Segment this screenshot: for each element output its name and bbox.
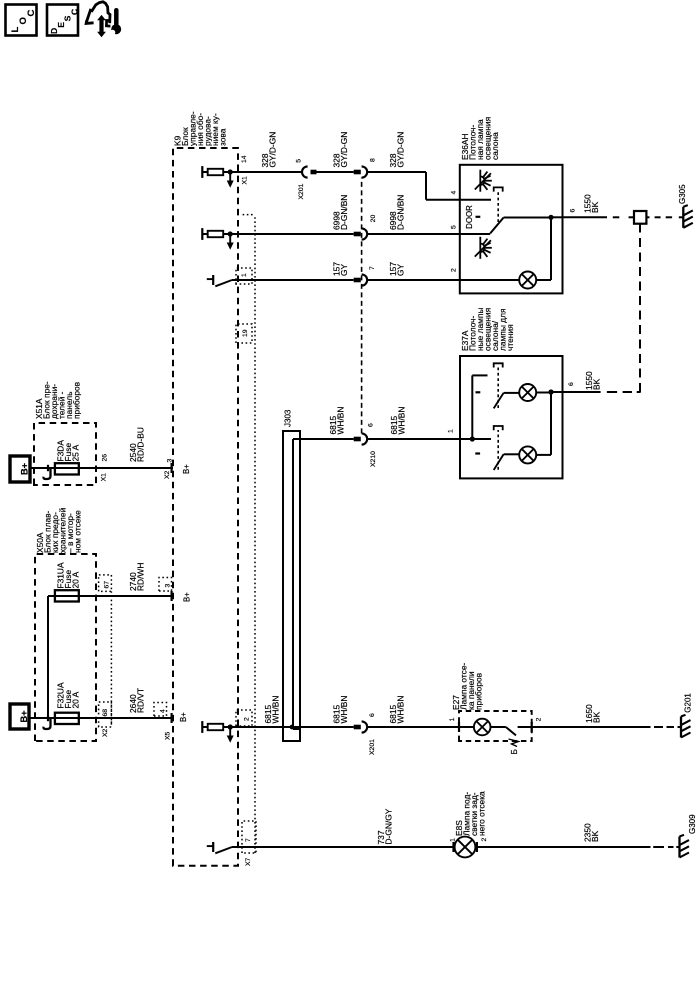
svg-text:1: 1	[448, 429, 455, 433]
svg-text:20 A: 20 A	[71, 571, 81, 588]
svg-text:1: 1	[449, 717, 456, 721]
svg-text:G201: G201	[684, 693, 693, 713]
svg-text:приборов: приборов	[72, 381, 82, 419]
svg-text:C: C	[69, 9, 79, 15]
svg-text:D-GN/GY: D-GN/GY	[384, 808, 394, 844]
svg-text:B+: B+	[19, 463, 29, 475]
svg-text:RD/WH: RD/WH	[136, 563, 146, 591]
svg-text:WH/BN: WH/BN	[336, 407, 346, 435]
svg-text:E: E	[56, 22, 66, 28]
svg-text:19: 19	[242, 329, 249, 337]
svg-text:L: L	[10, 27, 21, 33]
svg-text:1: 1	[450, 838, 457, 842]
svg-text:67: 67	[104, 581, 111, 589]
svg-text:G309: G309	[688, 814, 697, 834]
svg-text:S: S	[63, 15, 73, 21]
svg-text:O: O	[18, 17, 29, 25]
svg-text:G305: G305	[678, 184, 687, 204]
svg-text:GY: GY	[396, 263, 406, 276]
svg-text:C: C	[26, 10, 37, 17]
svg-text:DOOR: DOOR	[465, 205, 474, 229]
svg-text:RD/D-BU: RD/D-BU	[136, 427, 146, 462]
svg-text:3: 3	[167, 459, 174, 463]
svg-text:J303: J303	[284, 409, 293, 427]
svg-text:6: 6	[570, 209, 577, 213]
svg-text:14: 14	[241, 155, 248, 163]
svg-text:6: 6	[369, 713, 376, 717]
svg-text:X210: X210	[370, 451, 377, 467]
svg-text:25 A: 25 A	[71, 444, 81, 461]
svg-text:4: 4	[451, 191, 458, 195]
svg-text:20: 20	[370, 215, 377, 223]
svg-text:ном отсеке: ном отсеке	[73, 510, 83, 553]
svg-text:B+: B+	[179, 712, 188, 722]
svg-text:20 A: 20 A	[71, 691, 81, 708]
svg-text:B+: B+	[183, 592, 192, 602]
svg-text:8: 8	[370, 158, 377, 162]
svg-text:WH/BN: WH/BN	[396, 696, 406, 724]
svg-text:X1: X1	[101, 473, 108, 482]
svg-text:5: 5	[451, 225, 458, 229]
svg-text:X2: X2	[102, 728, 109, 737]
svg-text:WH/BN: WH/BN	[397, 407, 407, 435]
svg-text:2: 2	[451, 268, 458, 272]
svg-text:X1: X1	[242, 176, 249, 185]
svg-text:салона: салона	[490, 132, 500, 160]
svg-text:X2: X2	[164, 470, 171, 479]
svg-text:GY: GY	[339, 263, 349, 276]
svg-text:6: 6	[568, 382, 575, 386]
svg-text:WH/BN: WH/BN	[271, 696, 281, 724]
svg-text:X7: X7	[245, 857, 252, 866]
svg-text:2: 2	[244, 717, 251, 721]
svg-text:BK: BK	[590, 201, 600, 213]
svg-text:D-GN/BN: D-GN/BN	[339, 195, 349, 230]
svg-text:него отсека: него отсека	[477, 791, 487, 836]
svg-text:5: 5	[296, 159, 303, 163]
svg-text:GY/D-GN: GY/D-GN	[268, 132, 278, 168]
svg-text:1: 1	[241, 273, 248, 277]
svg-text:B+: B+	[182, 464, 191, 474]
svg-text:GY/D-GN: GY/D-GN	[396, 132, 406, 168]
svg-text:6: 6	[368, 423, 375, 427]
svg-text:2: 2	[481, 838, 488, 842]
svg-text:4: 4	[160, 709, 167, 713]
svg-text:Б: Б	[510, 749, 519, 754]
svg-text:зова: зова	[218, 128, 228, 146]
svg-text:7: 7	[245, 838, 252, 842]
svg-text:B+: B+	[19, 710, 29, 722]
svg-text:WH/BN: WH/BN	[339, 696, 349, 724]
svg-text:26: 26	[102, 454, 109, 462]
svg-text:чтения: чтения	[505, 324, 515, 351]
svg-text:2: 2	[536, 717, 543, 721]
svg-text:3: 3	[165, 584, 172, 588]
svg-text:GY/D-GN: GY/D-GN	[339, 132, 349, 168]
svg-text:X201: X201	[298, 183, 305, 199]
svg-text:приборов: приборов	[474, 672, 484, 710]
svg-text:X5: X5	[165, 731, 172, 740]
svg-text:BK: BK	[590, 830, 600, 842]
svg-text:X201: X201	[369, 739, 376, 755]
svg-text:RD/VT: RD/VT	[136, 688, 146, 713]
svg-text:D: D	[49, 28, 59, 34]
svg-text:D-GN/BN: D-GN/BN	[396, 195, 406, 230]
svg-text:68: 68	[102, 709, 109, 717]
svg-text:BK: BK	[592, 711, 602, 723]
svg-text:BK: BK	[592, 378, 602, 390]
svg-text:7: 7	[369, 266, 376, 270]
